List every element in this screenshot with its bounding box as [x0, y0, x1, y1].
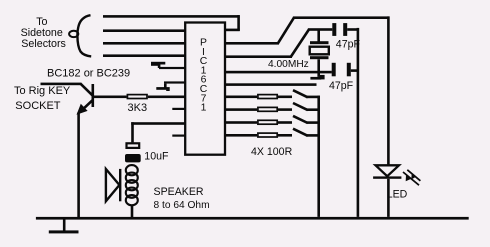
- wire R3 to switch 2: [278, 108, 292, 111]
- svg-text:47pF: 47pF: [329, 80, 354, 92]
- stub pin left (tick down): [164, 81, 185, 83]
- switch bus down to ground: [317, 96, 320, 217]
- wire R4 to switch 3: [278, 121, 292, 124]
- switch S2 right contact to bus: [307, 108, 320, 111]
- wire coil to ground rail: [131, 205, 134, 218]
- stub pin left short (pin 9): [172, 135, 184, 137]
- resistor R4 100R row3 wire: [225, 121, 257, 124]
- wire resistor to chip: [148, 96, 185, 99]
- ground symbol: [63, 219, 66, 230]
- wire LED to ground rail: [387, 179, 390, 217]
- IC U1 PIC16C71: [185, 23, 225, 155]
- wire sidetone line 4: [103, 54, 186, 57]
- switch S1 right contact to bus: [307, 96, 320, 99]
- switch S2 blade: [293, 103, 308, 110]
- wire to rig key socket (collector): [41, 83, 82, 86]
- resistor R2 100R: [258, 95, 277, 99]
- transistor Q1 collector diagonal: [81, 84, 93, 96]
- stub pin left short (pin 7): [172, 108, 184, 110]
- capacitor C1 47pF right plate: [343, 23, 347, 36]
- svg-text:To Rig KEY: To Rig KEY: [14, 85, 71, 97]
- wire chip pin to 10uF branch: [131, 122, 184, 125]
- speaker voice coil L1: [126, 165, 138, 205]
- OSC1 diagonal up: [278, 18, 294, 44]
- resistor R2 100R row1 wire: [225, 96, 257, 99]
- svg-text:4.00MHz: 4.00MHz: [268, 59, 309, 70]
- label To Rig KEY SOCKET: [14, 85, 71, 112]
- wire R5 to switch 4: [278, 134, 292, 137]
- wire R2 to switch 1: [278, 96, 292, 99]
- wire chip pin row E (stub right): [225, 83, 317, 86]
- svg-text:LED: LED: [387, 189, 408, 201]
- svg-text:SOCKET: SOCKET: [15, 100, 61, 112]
- wire OSC2 node to crystal top and C1: [308, 28, 332, 31]
- top rail wire to LED branch: [293, 16, 389, 19]
- capacitor C3 10uF plus plate: [127, 143, 140, 148]
- svg-text:3K3: 3K3: [128, 102, 148, 114]
- resistor R5 100R: [258, 133, 277, 137]
- transistor Q1 emitter diagonal with arrow: [80, 100, 93, 112]
- wire emitter down to ground rail: [77, 113, 80, 218]
- capacitor C3 10uF minus plate (filled): [125, 154, 141, 162]
- wire base to resistor: [94, 96, 127, 99]
- wire C2 right to bus: [351, 69, 359, 72]
- capacitor bus down to ground: [357, 28, 360, 217]
- OSC2 diagonal up: [291, 29, 309, 56]
- capacitor C1 47pF left plate: [332, 23, 336, 36]
- speaker cone symbol: [106, 169, 120, 201]
- wire sidetone line 2: [103, 29, 186, 32]
- label SPEAKER 8 to 64 Ohm: [154, 186, 210, 211]
- wire chip pin to crystal bottom / C2: [225, 71, 332, 74]
- capacitor C2 47pF left plate: [332, 63, 336, 77]
- wire LED branch down from top rail: [387, 16, 390, 165]
- stub pin left (tick up): [159, 67, 185, 69]
- LED D1 cathode bar: [373, 176, 401, 178]
- switch S3 right contact to bus: [307, 121, 320, 124]
- svg-text:8 to 64 Ohm: 8 to 64 Ohm: [154, 200, 210, 211]
- svg-text:1: 1: [201, 103, 207, 114]
- wire sidetone line 3: [103, 42, 186, 45]
- wire chip right pin to OSC1 diagonal: [225, 42, 279, 45]
- switch S3 blade: [293, 116, 308, 123]
- svg-text:SPEAKER: SPEAKER: [154, 186, 204, 198]
- switch S1 blade: [293, 90, 308, 97]
- capacitor C2 47pF right plate: [347, 63, 351, 77]
- resistor R3 100R row2 wire: [225, 108, 257, 111]
- transistor Q1 base bar: [92, 84, 95, 107]
- ground rail: [36, 217, 469, 220]
- svg-text:Selectors: Selectors: [21, 38, 66, 50]
- LED D1 triangle: [376, 165, 400, 176]
- resistor R1 3K3: [127, 95, 147, 99]
- switch S4 right contact to bus: [307, 134, 320, 137]
- resistor R4 100R: [258, 120, 277, 124]
- svg-text:4X 100R: 4X 100R: [251, 146, 293, 158]
- svg-text:10uF: 10uF: [144, 151, 169, 163]
- wire chip right pin to OSC2 diagonal: [225, 55, 292, 58]
- resistor R3 100R: [258, 107, 277, 111]
- resistor R5 100R row4 wire: [225, 134, 257, 137]
- LED light arrows: [403, 170, 420, 185]
- svg-text:BC182 or BC239: BC182 or BC239: [47, 68, 130, 80]
- wire sidetone line 1 (over chip to right pin): [103, 15, 240, 18]
- label: To Sidetone Selectors: [21, 16, 66, 50]
- switch S4 blade: [293, 129, 308, 136]
- wire C1 right to bus: [347, 28, 358, 31]
- connector brace to sidetone selectors: [69, 15, 91, 56]
- crystal X1 4.00MHz: [317, 31, 320, 42]
- crystal bottom tick bar: [310, 77, 321, 80]
